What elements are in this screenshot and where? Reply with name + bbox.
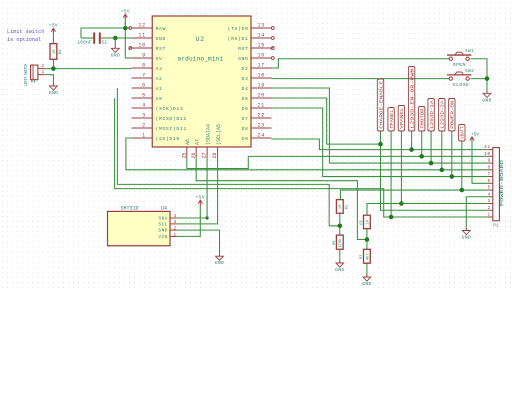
- svg-text:4: 4: [487, 191, 490, 197]
- svg-text:20: 20: [258, 92, 265, 98]
- power +5V above RAW: [124, 21, 126, 28]
- wire VBATT row5 to R1 top: [340, 190, 488, 200]
- svg-text:13: 13: [258, 22, 265, 28]
- ground below R7: [366, 275, 368, 277]
- switch SW1 OPEN: [449, 57, 452, 60]
- svg-text:(SDA)A4: (SDA)A4: [205, 124, 211, 145]
- wire +5V to SHT31D VIN: [177, 210, 200, 236]
- svg-text:2: 2: [174, 226, 177, 231]
- svg-text:A2: A2: [156, 76, 163, 82]
- wire A7 to R2/R7 divider midpoint: [196, 158, 367, 240]
- U2 right pin stubs: [251, 27, 272, 29]
- svg-text:A7: A7: [194, 139, 200, 145]
- wire A0 to row1 TPANEL: [115, 98, 489, 217]
- wire D5 to CHARGE-ENABLE vertical: [272, 98, 381, 144]
- ground below limit switch: [52, 84, 54, 86]
- svg-text:19: 19: [258, 82, 265, 88]
- svg-text:VBATT: VBATT: [460, 126, 466, 138]
- junction TPANEL row1: [389, 215, 394, 220]
- svg-text:OPEN: OPEN: [453, 62, 466, 68]
- svg-text:9: 9: [487, 158, 490, 164]
- ground below R5: [339, 261, 341, 263]
- svg-text:CLOSE: CLOSE: [453, 82, 470, 88]
- wire P1 pin4 to GND: [466, 197, 488, 229]
- wire D6 to row7 POWER-ON: [272, 108, 489, 177]
- U2 bottom pin stubs A6 A7 A4 A5: [186, 147, 188, 158]
- svg-text:GND: GND: [111, 52, 120, 58]
- svg-text:SHT31D: SHT31D: [121, 205, 139, 211]
- svg-text:1: 1: [487, 212, 490, 218]
- U2 RST pin15 mark: [271, 47, 275, 50]
- ground below C1: [114, 38, 116, 46]
- svg-text:U4: U4: [161, 205, 167, 211]
- junction R2/R7 midpoint: [365, 237, 370, 242]
- svg-text:SCL: SCL: [158, 222, 168, 228]
- svg-text:+5V: +5V: [121, 9, 130, 15]
- junction L293D-2A row8: [440, 168, 445, 173]
- svg-text:6: 6: [487, 178, 490, 184]
- svg-text:RST: RST: [238, 46, 248, 52]
- wire TMOTOR label vertical: [421, 131, 423, 156]
- svg-text:POWER-ON: POWER-ON: [450, 100, 456, 128]
- junction limit-switch node: [51, 66, 56, 71]
- svg-text:1M: 1M: [366, 219, 370, 224]
- svg-text:A0: A0: [156, 96, 163, 102]
- U2 RST pin10 slash: [129, 47, 133, 50]
- svg-text:8: 8: [142, 62, 146, 68]
- junction R1/R5 midpoint: [338, 224, 343, 229]
- wire A6 to row10 TMOTOR: [187, 156, 489, 168]
- wire L293D-EN-OR-PWM label vertical: [411, 131, 413, 150]
- svg-text:CHARGE-ENABLE: CHARGE-ENABLE: [378, 81, 384, 129]
- svg-text:26: 26: [191, 152, 197, 158]
- net label TPANEL: [388, 108, 394, 132]
- svg-text:P1: P1: [493, 224, 499, 229]
- resistor R5 470k: [336, 235, 343, 249]
- svg-text:(MISO)D12: (MISO)D12: [156, 116, 187, 122]
- resistor R7 4k7: [364, 249, 371, 263]
- junction +5V/RAW node: [123, 26, 128, 31]
- svg-text:GND: GND: [482, 97, 491, 103]
- connector P1 POWER-BOARD body: [493, 148, 500, 221]
- U2 right unconnected pin circles: [271, 27, 274, 30]
- wire D4 to row9 L293D-1A: [272, 88, 489, 163]
- resistor R4 1M pullup: [50, 44, 57, 60]
- wire A4 to SHT31D SDA: [177, 158, 207, 218]
- wire D9 to row11 L293D-EN-OR-PWM: [272, 139, 489, 150]
- svg-text:SW2: SW2: [465, 69, 474, 74]
- svg-text:25: 25: [181, 152, 187, 158]
- net label L293D-EN-OR-PWM: [408, 67, 414, 132]
- svg-text:GND: GND: [335, 267, 344, 273]
- wire A1 to R1/R5 divider midpoint: [117, 88, 339, 226]
- wire C1 right to GND pin: [101, 37, 132, 39]
- wire VBATT label vertical: [461, 141, 463, 190]
- junction POWER-ON row7: [450, 174, 455, 179]
- svg-text:GND: GND: [362, 281, 371, 287]
- svg-text:A1: A1: [156, 86, 163, 92]
- power +5V above P1 pin6: [471, 140, 473, 145]
- svg-text:A3: A3: [156, 66, 163, 72]
- svg-text:11: 11: [138, 32, 145, 38]
- svg-text:470k: 470k: [338, 238, 343, 248]
- wire CHARGE-ENABLE label vertical to row2: [381, 131, 489, 210]
- ground below SHT31D: [219, 254, 221, 256]
- svg-text:D6: D6: [242, 106, 249, 112]
- svg-text:C1: C1: [102, 40, 108, 45]
- svg-text:GND: GND: [156, 36, 166, 42]
- svg-text:R7: R7: [360, 254, 364, 259]
- op IC U2 arduino_mini body: [152, 16, 251, 147]
- wire VPANEL label vertical: [400, 131, 402, 204]
- svg-text:1: 1: [142, 132, 146, 138]
- power +5V above SHT31D VIN: [199, 207, 201, 210]
- svg-text:+5V: +5V: [49, 23, 58, 29]
- power +5V above R4: [52, 35, 54, 44]
- U2 left pin stubs: [132, 27, 153, 29]
- wire limit-switch node to A3 pin 8: [45, 68, 131, 70]
- svg-text:7: 7: [142, 72, 146, 78]
- svg-text:15: 15: [258, 42, 265, 48]
- wire R7 bottom to GND: [366, 263, 368, 276]
- op IC U4 SHT31D body: [108, 211, 171, 245]
- svg-text:L293D-EN-OR-PWM: L293D-EN-OR-PWM: [409, 68, 415, 128]
- svg-text:100nF: 100nF: [77, 40, 92, 45]
- net label VBATT: [459, 125, 465, 142]
- svg-text:+5V: +5V: [196, 195, 205, 201]
- svg-text:RAW: RAW: [156, 26, 166, 32]
- junction VPANEL row3: [399, 201, 404, 206]
- svg-text:U2: U2: [196, 36, 205, 43]
- svg-text:P4: P4: [31, 81, 37, 85]
- svg-text:2: 2: [42, 64, 45, 69]
- svg-text:LIMIT-SWITCH: LIMIT-SWITCH: [24, 64, 29, 87]
- svg-text:(TX)D0: (TX)D0: [228, 26, 249, 32]
- U2 left unconnected pin circles: [129, 27, 132, 30]
- net label CHARGE-ENABLE: [377, 79, 383, 131]
- net label TMOTOR: [419, 107, 425, 132]
- svg-text:1M: 1M: [53, 49, 57, 54]
- svg-text:(SS)D10: (SS)D10: [156, 136, 180, 142]
- junction L293D-1A row9: [429, 161, 434, 166]
- junction SDA node: [206, 216, 209, 219]
- svg-text:4: 4: [142, 102, 146, 108]
- svg-text:SW1: SW1: [465, 49, 474, 54]
- wire A5 to SHT31D SCL: [177, 158, 218, 224]
- svg-text:6: 6: [142, 82, 146, 88]
- svg-text:1: 1: [174, 233, 177, 238]
- connector P4 LIMIT-SWITCH: [31, 65, 38, 80]
- svg-text:18: 18: [258, 72, 265, 78]
- svg-text:arduino_mini: arduino_mini: [178, 56, 224, 63]
- wire limit-switch pin1 to GND: [45, 75, 53, 85]
- svg-text:R5: R5: [333, 240, 337, 245]
- wire TPANEL label vertical: [390, 131, 392, 217]
- svg-text:3: 3: [487, 198, 490, 204]
- svg-text:11: 11: [484, 144, 491, 150]
- svg-text:D5: D5: [242, 96, 249, 102]
- wire L293D-1A label vertical: [430, 131, 432, 163]
- svg-text:27: 27: [202, 152, 208, 158]
- junction D5/CHARGE-ENABLE: [378, 142, 383, 147]
- svg-text:12: 12: [138, 22, 145, 28]
- svg-text:D9: D9: [242, 136, 249, 142]
- wire R5 bottom to GND: [339, 249, 341, 262]
- svg-text:L293D-1A: L293D-1A: [429, 100, 435, 128]
- svg-text:L293D-2A: L293D-2A: [440, 100, 446, 128]
- svg-text:22: 22: [258, 112, 265, 118]
- svg-text:8: 8: [487, 164, 490, 170]
- svg-text:TMOTOR: TMOTOR: [420, 108, 426, 128]
- svg-text:23: 23: [258, 122, 265, 128]
- svg-text:2: 2: [487, 205, 490, 211]
- svg-text:A6: A6: [185, 139, 191, 145]
- resistor R1 1M: [336, 200, 343, 214]
- svg-text:7: 7: [487, 171, 490, 177]
- svg-text:GND: GND: [158, 228, 168, 234]
- svg-text:Limit switch: Limit switch: [7, 29, 44, 35]
- wire R2 bottom to midpoint to R7: [366, 229, 368, 250]
- svg-text:3: 3: [174, 220, 177, 225]
- svg-text:(MOSI)D11: (MOSI)D11: [156, 126, 187, 132]
- U4 pin stubs: [170, 217, 177, 219]
- svg-text:D8: D8: [242, 126, 249, 132]
- svg-text:16: 16: [258, 52, 265, 58]
- svg-text:28: 28: [212, 152, 218, 158]
- svg-text:+5V: +5V: [471, 132, 480, 138]
- svg-text:5: 5: [142, 92, 146, 98]
- wire SW1/SW2 common to GND: [471, 59, 488, 91]
- svg-text:RST: RST: [156, 46, 166, 52]
- svg-text:1: 1: [42, 70, 45, 75]
- svg-text:D7: D7: [242, 116, 249, 122]
- junction C1/GND node: [113, 36, 118, 41]
- wire POWER-ON label vertical: [451, 131, 453, 177]
- svg-text:SDA: SDA: [158, 216, 168, 222]
- svg-text:14: 14: [258, 32, 265, 38]
- svg-text:2: 2: [142, 122, 146, 128]
- wire resistor R4 bottom to node: [52, 59, 54, 68]
- net label L293D-2A: [439, 99, 445, 132]
- net label L293D-1A: [428, 99, 434, 132]
- svg-text:24: 24: [258, 132, 265, 138]
- wire D2 net to OPEN switch SW1: [272, 59, 450, 68]
- junction VBATT row5: [460, 188, 465, 193]
- svg-text:17: 17: [258, 62, 265, 68]
- svg-text:D2: D2: [242, 66, 249, 72]
- resistor R2 1M: [364, 215, 371, 229]
- svg-text:(SCK)D13: (SCK)D13: [156, 106, 184, 112]
- svg-text:VIN: VIN: [158, 234, 168, 240]
- wire +5V to RAW/5V/C1 net: [81, 28, 130, 38]
- svg-text:4k7: 4k7: [365, 253, 370, 260]
- junction SW2 common: [485, 76, 490, 81]
- switch SW2 CLOSE: [449, 77, 452, 80]
- svg-text:GND: GND: [215, 260, 224, 266]
- svg-text:21: 21: [258, 102, 265, 108]
- svg-text:POWER-BOARD: POWER-BOARD: [500, 159, 505, 206]
- wire L293D-2A label vertical: [441, 131, 443, 170]
- svg-text:R2: R2: [360, 219, 364, 224]
- ground below P1 pin4: [465, 228, 467, 230]
- svg-text:(RX)D1: (RX)D1: [228, 36, 249, 42]
- svg-text:VPANEL: VPANEL: [399, 107, 405, 128]
- net label POWER-ON: [449, 99, 455, 132]
- svg-text:D4: D4: [242, 86, 249, 92]
- svg-text:D3: D3: [242, 76, 249, 82]
- ground below switches: [486, 91, 488, 93]
- wire R1 bottom to midpoint to R5: [339, 213, 341, 235]
- junction TMOTOR row10: [419, 154, 424, 159]
- svg-text:GND: GND: [238, 56, 248, 62]
- svg-text:4: 4: [174, 214, 177, 219]
- svg-text:is optional: is optional: [7, 37, 41, 43]
- svg-text:9: 9: [142, 52, 146, 58]
- svg-text:10: 10: [484, 151, 491, 157]
- wire D10/SS to row8 L293D-2A: [126, 138, 489, 170]
- svg-text:GND: GND: [49, 90, 58, 96]
- wire VPANEL row3 to R2 top: [367, 204, 489, 216]
- svg-text:TPANEL: TPANEL: [389, 109, 395, 128]
- capacitor C1 100nF: [93, 33, 95, 44]
- net label VPANEL: [398, 106, 404, 132]
- wire +5V to P1 pin6: [472, 145, 489, 183]
- svg-text:10: 10: [138, 42, 145, 48]
- svg-text:1M: 1M: [339, 204, 343, 209]
- svg-text:(SCL)A5: (SCL)A5: [216, 124, 222, 145]
- svg-text:GND: GND: [462, 235, 471, 241]
- svg-text:R1: R1: [346, 204, 350, 209]
- svg-text:5: 5: [487, 185, 490, 191]
- svg-text:3: 3: [142, 112, 146, 118]
- svg-text:R4: R4: [59, 49, 63, 54]
- wire D3 net to CLOSE switch SW2: [272, 78, 450, 80]
- svg-text:5V: 5V: [156, 56, 163, 62]
- junction L293D-EN row11: [409, 147, 414, 152]
- wire SHT31D GND pin to GND: [177, 230, 220, 254]
